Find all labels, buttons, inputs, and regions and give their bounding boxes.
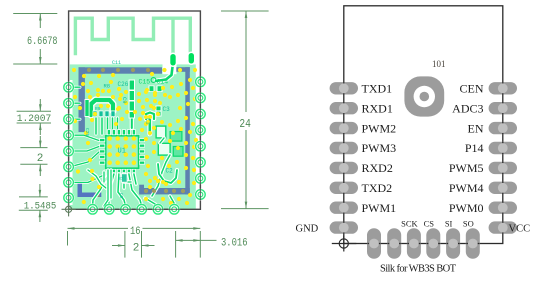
svg-text:C11: C11 — [112, 60, 121, 66]
svg-text:R9: R9 — [95, 106, 101, 112]
svg-text:CEN: CEN — [460, 82, 484, 96]
shield right bar — [185, 67, 190, 194]
pad VCC — [489, 221, 517, 233]
svg-text:VCC: VCC — [509, 224, 531, 235]
wire C3 pads — [156, 106, 162, 117]
antenna meander — [75, 18, 190, 55]
dim 2 bottom — [124, 231, 126, 258]
svg-text:TXD1: TXD1 — [362, 82, 393, 96]
copper pour — [70, 64, 196, 209]
dim 1.2007 — [17, 110, 51, 112]
left edge clearance strip — [69, 80, 72, 205]
svg-text:101: 101 — [432, 59, 446, 69]
svg-text:SCK: SCK — [401, 219, 418, 229]
svg-text:3.016: 3.016 — [221, 237, 248, 249]
svg-text:PWM3: PWM3 — [362, 141, 397, 155]
vias on shield bar — [72, 68, 76, 72]
pad TXD2 — [330, 182, 358, 194]
pad P14 — [489, 142, 517, 154]
pad PWM4 — [489, 182, 517, 194]
pad RXD1 — [330, 102, 358, 114]
via between C15 C14 — [151, 78, 156, 83]
svg-text:ADC3: ADC3 — [452, 101, 483, 115]
svg-text:RXD2: RXD2 — [362, 161, 393, 175]
dim 3.016 — [175, 231, 177, 258]
chip U1 via grid — [107, 136, 112, 141]
svg-text:Silk for WB3S BOT: Silk for WB3S BOT — [380, 264, 457, 275]
svg-text:TXD2: TXD2 — [362, 181, 393, 195]
svg-text:PWM0: PWM0 — [449, 201, 484, 215]
svg-text:C14: C14 — [157, 79, 169, 86]
pad TXD1 — [330, 82, 358, 94]
pad bottom SCK — [407, 228, 421, 259]
svg-text:L1: L1 — [145, 118, 152, 125]
shield left bar — [79, 67, 85, 132]
wire S-bend to C3 — [146, 113, 154, 120]
capacitor below U1 — [122, 174, 128, 182]
svg-text:SO: SO — [463, 219, 474, 229]
capacitor box filled 1 — [170, 132, 182, 142]
via blob A — [169, 53, 178, 68]
vias on bottom shield bar — [144, 189, 148, 193]
svg-text:PWM1: PWM1 — [362, 201, 397, 215]
castellated holes right — [195, 76, 207, 88]
dim 24 — [221, 10, 269, 12]
chip U1 pins — [107, 130, 110, 135]
svg-text:C26: C26 — [118, 81, 129, 88]
svg-text:1.5485: 1.5485 — [24, 202, 57, 213]
pad column left of network — [85, 99, 90, 117]
svg-text:C9: C9 — [121, 97, 128, 104]
svg-text:EN: EN — [468, 121, 484, 135]
pad GND — [330, 221, 358, 233]
svg-text:16: 16 — [130, 226, 141, 238]
pad PWM5 — [489, 162, 517, 174]
dim 16 — [67, 231, 69, 246]
mounting pad 101 — [404, 76, 444, 116]
wire upper-left diag group — [88, 170, 106, 188]
capacitor box outline 2 — [158, 143, 170, 155]
via blob B — [187, 52, 196, 66]
silk outline rect — [344, 6, 503, 244]
svg-text:P14: P14 — [465, 141, 484, 155]
shield bottom-left L bar — [78, 181, 83, 197]
svg-text:PWM5: PWM5 — [449, 161, 484, 175]
pad bottom SI — [446, 228, 460, 259]
gray pad on L bar — [95, 193, 100, 198]
pad bottom — [387, 228, 401, 259]
wire diag from box2 — [152, 155, 170, 196]
inductor chain mid column — [129, 80, 135, 119]
svg-text:R7: R7 — [118, 176, 124, 182]
svg-text:C29: C29 — [84, 128, 90, 136]
pad PWM3 — [330, 142, 358, 154]
castellated holes bottom — [87, 203, 99, 215]
pad bottom — [367, 228, 381, 259]
wire feed down to matching network — [130, 117, 134, 128]
svg-text:RXD1: RXD1 — [362, 101, 393, 115]
pad RXD2 — [330, 162, 358, 174]
svg-text:6.6678: 6.6678 — [27, 36, 58, 48]
svg-text:C15: C15 — [139, 79, 151, 86]
shield bottom-right bar — [139, 188, 190, 194]
dim 1.5485 — [19, 196, 48, 198]
svg-text:CS: CS — [424, 219, 435, 229]
castellated holes left — [63, 81, 75, 93]
svg-text:2: 2 — [37, 153, 44, 165]
wire loop around C2 — [158, 164, 177, 183]
origin crosshair pcb — [62, 202, 76, 216]
origin crosshair silk — [332, 236, 357, 252]
svg-text:24: 24 — [239, 118, 251, 131]
wire left hole links — [70, 135, 99, 140]
svg-text:GND: GND — [296, 224, 319, 235]
pad PWM2 — [330, 122, 358, 134]
wire antenna feed from via to C15 — [156, 63, 173, 81]
svg-text:1.2007: 1.2007 — [17, 114, 52, 125]
pad bottom SO — [466, 228, 480, 259]
white notch at antenna feed — [163, 64, 177, 74]
svg-text:C8: C8 — [118, 193, 124, 199]
shield top-right segment — [176, 67, 190, 72]
board edge through holes — [68, 80, 70, 204]
svg-text:2: 2 — [133, 242, 140, 254]
pad EN — [489, 122, 517, 134]
board outline — [69, 11, 201, 209]
pad bottom CS — [426, 228, 440, 259]
wire fanout below U1 — [93, 174, 109, 206]
pad CEN — [489, 82, 517, 94]
dim 6.6678 — [13, 13, 57, 15]
vias — [82, 74, 86, 78]
matching network arch — [91, 100, 113, 115]
capacitor C15/C14 pads — [149, 86, 155, 93]
shield top bar — [79, 67, 163, 73]
wire stubs below network — [94, 118, 97, 134]
svg-text:R8: R8 — [104, 83, 111, 90]
antenna stub — [171, 18, 174, 54]
svg-text:SI: SI — [445, 219, 453, 229]
resistor pads row — [93, 111, 98, 118]
pad ADC3 — [489, 102, 517, 114]
capacitor box filled 2 — [173, 147, 183, 157]
chip U1 body — [104, 134, 140, 169]
pad PWM0 — [489, 202, 517, 214]
svg-text:C3: C3 — [163, 106, 171, 113]
svg-text:C2: C2 — [166, 168, 174, 175]
capacitor box outline 1 — [156, 126, 166, 138]
dim 2 left — [20, 147, 47, 149]
svg-text:PWM4: PWM4 — [449, 181, 484, 195]
svg-text:U1: U1 — [118, 148, 126, 156]
pad PWM1 — [330, 202, 358, 214]
svg-text:PWM2: PWM2 — [362, 121, 397, 135]
